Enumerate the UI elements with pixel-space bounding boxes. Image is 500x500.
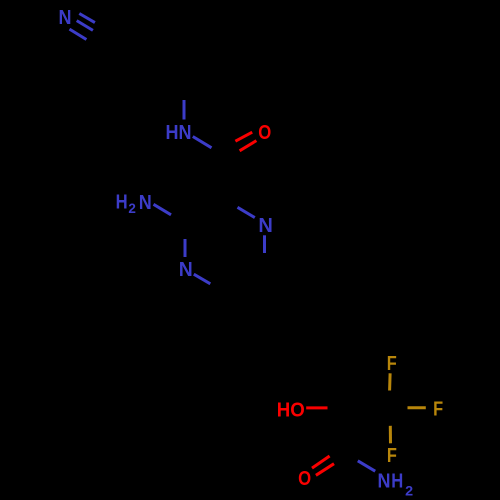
wire C3'-F top (gold half)	[388, 373, 392, 390]
wire HO-C2' (red half)	[306, 406, 327, 409]
svg-text:H: H	[391, 471, 403, 493]
svg-text:F: F	[387, 445, 397, 467]
ring bond N4-C5 (blue half)	[194, 274, 211, 284]
wire C3'-F bottom (gold half)	[389, 426, 392, 444]
wire C3'-F right (gold half)	[408, 406, 426, 409]
svg-text:HO: HO	[277, 399, 305, 421]
svg-text:N: N	[179, 259, 193, 281]
svg-text:F: F	[387, 353, 397, 375]
wire HN-C(=O) (blue half)	[193, 137, 212, 148]
svg-text:2: 2	[405, 482, 413, 498]
svg-text:N: N	[258, 215, 273, 237]
ring bond C2-N1 (blue half)	[238, 207, 255, 217]
svg-text:N: N	[139, 192, 152, 214]
svg-text:2: 2	[128, 200, 136, 216]
amide C=O double bond (red halves)	[235, 132, 256, 151]
wire C1'-NH2 (blue half)	[358, 461, 375, 471]
ring bond N1-C6 (blue half)	[263, 235, 266, 253]
svg-text:HN: HN	[166, 122, 192, 144]
ring bond C3-N4 (blue half)	[184, 239, 187, 257]
svg-text:H: H	[116, 191, 128, 213]
svg-text:O: O	[298, 468, 311, 490]
wire CH2-NH (blue half)	[183, 100, 186, 120]
amide2 C=O double bond (red halves)	[312, 456, 334, 475]
svg-text:N: N	[59, 7, 72, 29]
svg-text:N: N	[378, 471, 391, 493]
nitrile triple bond N#C (blue halves)	[70, 14, 95, 40]
svg-text:O: O	[258, 122, 271, 144]
wire H2N-C3 (blue half)	[154, 204, 172, 215]
svg-text:F: F	[433, 399, 443, 421]
